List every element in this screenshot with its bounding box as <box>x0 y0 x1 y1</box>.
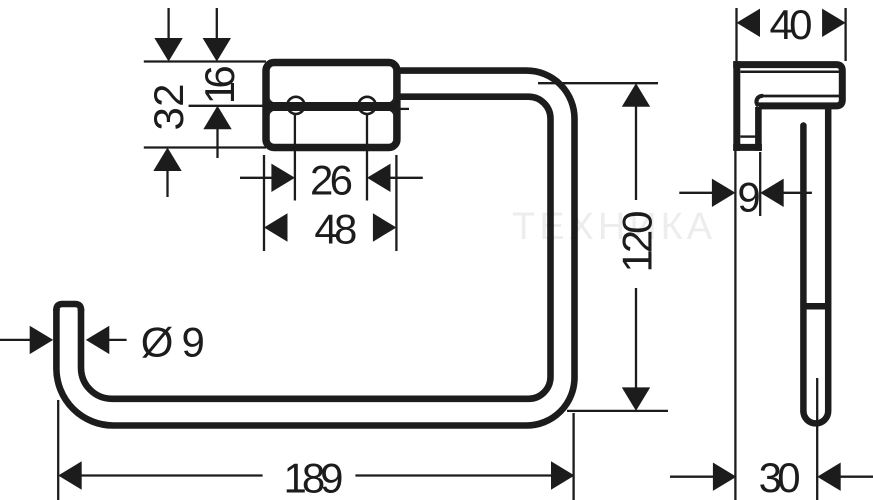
30 arrow left-point <box>817 463 841 491</box>
9 dim line right <box>783 192 812 194</box>
16 top arrow shaft <box>216 8 218 40</box>
16 arrow up <box>203 106 231 130</box>
30 arrow right-point <box>713 463 737 491</box>
120 arrow up <box>622 83 650 107</box>
side long ext line left <box>734 151 736 500</box>
svg-text:40: 40 <box>770 1 813 48</box>
foot thin line <box>740 135 756 137</box>
plate ext line right <box>395 155 397 251</box>
ring outer contour <box>56 71 574 426</box>
wall plate <box>266 63 397 148</box>
48 arrow right-point <box>373 213 397 241</box>
dia9 dim line right <box>108 339 126 341</box>
rod right edge <box>825 109 832 411</box>
plate ext line left <box>263 155 265 251</box>
shell inner thin line <box>740 71 841 74</box>
svg-text:48: 48 <box>314 206 357 253</box>
ext line mid (y105.8) <box>189 105 266 107</box>
dia9 dim line left <box>0 339 31 341</box>
189 ext line right <box>572 413 574 500</box>
screw hole right <box>359 97 376 114</box>
arm top thin line <box>763 95 842 98</box>
189 dim line left <box>81 474 263 476</box>
40 ext line right <box>844 8 846 61</box>
hole ext line left <box>294 115 296 201</box>
dia9 arrow left-point <box>86 326 110 354</box>
32 top arrow shaft <box>167 8 169 40</box>
189 dim line right <box>355 474 552 476</box>
9 ext line right <box>759 152 761 216</box>
26 dim line right <box>390 177 423 179</box>
svg-text:Ø 9: Ø 9 <box>141 318 205 365</box>
svg-text:32: 32 <box>145 84 192 131</box>
screw hole left <box>287 97 304 114</box>
svg-text:30: 30 <box>759 454 801 500</box>
plate band <box>266 102 397 111</box>
svg-text:120: 120 <box>613 211 660 273</box>
189 ext line left <box>57 400 59 500</box>
foot bottom edge <box>733 144 762 151</box>
26 arrow right-point <box>271 164 295 192</box>
hook end cap <box>56 304 81 311</box>
dia9 arrow right-point <box>30 326 54 354</box>
26 dim line left <box>240 177 273 179</box>
plate lower right edge <box>755 107 762 151</box>
40 ext line left <box>735 8 737 61</box>
svg-text:16: 16 <box>196 65 243 104</box>
ext line plate bottom (y147.5) <box>144 146 266 148</box>
189 arrow left-point <box>58 461 81 489</box>
rod left edge <box>800 126 807 412</box>
rod bottom cap <box>803 411 828 423</box>
ring inner contour <box>81 97 551 399</box>
hole ext line right <box>366 115 368 201</box>
wall plate left edge <box>733 61 740 151</box>
16 arrow down <box>203 38 231 62</box>
9 arrow right-point <box>712 179 736 207</box>
40 arrow left-point <box>737 9 761 37</box>
ext line top (y61.5) <box>144 60 266 62</box>
26 arrow left-point <box>367 164 391 192</box>
120 dim shaft lower <box>635 288 637 388</box>
40 arrow right-point <box>822 9 846 37</box>
120 ext line bottom <box>567 410 668 412</box>
rod joint tick <box>805 303 827 310</box>
9 dim line left <box>679 192 713 194</box>
189 arrow right-point <box>551 461 575 489</box>
32 bottom arrow shaft <box>166 169 168 197</box>
120 arrow down <box>622 387 650 411</box>
band fillets <box>270 97 276 103</box>
30 dim line right <box>840 476 873 478</box>
9 arrow left-point <box>760 179 784 207</box>
svg-text:9: 9 <box>737 174 760 221</box>
48 arrow left-point <box>264 213 288 241</box>
16 bottom arrow shaft <box>216 128 218 158</box>
120 ext line top <box>538 82 658 84</box>
arm end cap <box>756 96 763 106</box>
shell top + right edge + bottom lip <box>733 65 842 106</box>
30 ext line right (rod centre) <box>816 378 818 500</box>
svg-text:26: 26 <box>310 156 353 203</box>
svg-text:189: 189 <box>284 455 344 500</box>
120 dim shaft upper <box>635 106 637 200</box>
32 arrow down <box>154 38 182 62</box>
plate right stub <box>400 108 409 110</box>
32 arrow up <box>153 148 181 172</box>
30 dim line left <box>670 476 714 478</box>
